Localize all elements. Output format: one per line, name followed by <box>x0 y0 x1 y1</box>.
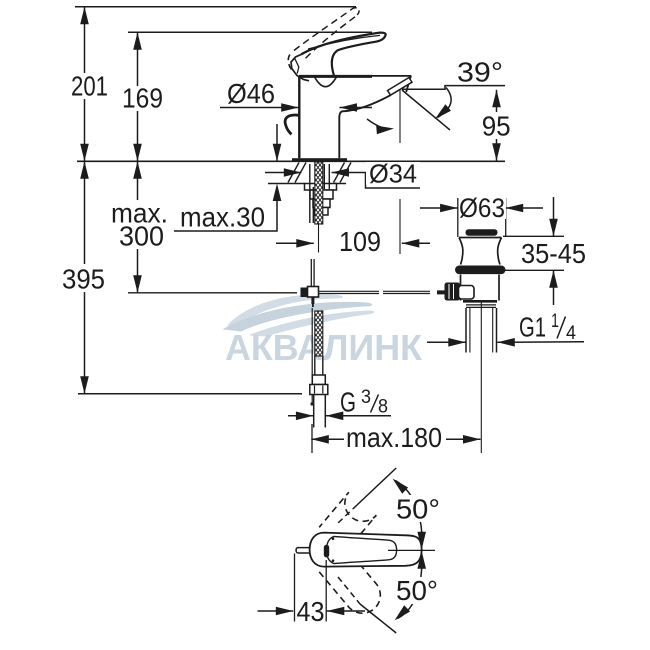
lever top inner line <box>308 35 380 49</box>
arrow right Ø46 <box>281 103 299 112</box>
label 50° upper <box>393 495 442 522</box>
arrowhead lower 50° at axis <box>417 551 426 569</box>
counter underside left <box>268 183 305 185</box>
arrow left 43 <box>327 607 345 616</box>
svg-text:50°: 50° <box>396 575 438 606</box>
drain push cap <box>466 229 498 236</box>
flexible hose crosshatch <box>315 311 323 356</box>
label Ø46 <box>222 80 280 106</box>
arrowhead upper 50° at axis <box>417 532 426 550</box>
43 right extension <box>325 560 327 622</box>
lower 50° diagonal solid <box>360 604 396 633</box>
counter underside right <box>334 183 346 185</box>
stream direction arc <box>367 119 390 129</box>
upper 50° diagonal solid <box>357 468 396 505</box>
drain centerline <box>480 301 482 453</box>
max30 leader/underline <box>174 201 277 231</box>
arrow left 109 <box>402 239 420 248</box>
lever rear inner facet <box>295 59 299 74</box>
svg-text:109: 109 <box>339 226 381 257</box>
upper arc shaft <box>421 531 423 534</box>
G1 1/4 left shaft <box>427 341 466 343</box>
pop-up rod hook <box>285 115 299 134</box>
supply tube A right wall <box>312 187 314 223</box>
43 left shaft <box>258 610 294 612</box>
handle top view inner contour <box>327 536 397 563</box>
arrow down 201 bottom <box>80 144 89 162</box>
drain ring line 1 <box>466 304 496 306</box>
hatch left 1 <box>288 163 299 183</box>
arrow left G3/8 <box>326 412 344 421</box>
hose connector <box>310 375 328 395</box>
Ø63 left extension line <box>457 198 459 237</box>
dimension line x=137.5 (169/max300) <box>137 32 139 293</box>
arrow left Ø63 <box>506 204 524 213</box>
arrow right 43 <box>276 607 294 616</box>
svg-text:G1: G1 <box>519 312 546 343</box>
aerator centerline upper <box>399 90 401 143</box>
knob ridge 2 <box>453 284 455 299</box>
arrowhead lower 50° at diagonal <box>395 605 411 620</box>
faucet body top edge thick <box>299 75 372 78</box>
faucet centerline below shank <box>318 224 320 253</box>
countertop line <box>77 160 505 162</box>
bottom reference line (hose end) <box>78 393 302 395</box>
drain flange right side <box>498 238 502 265</box>
pop-up rod nub left <box>296 548 310 553</box>
aerator centerline lower / 109 extension <box>399 199 401 254</box>
cartridge dome bowl arc <box>315 77 337 87</box>
upper 50° arc <box>396 481 422 533</box>
Ø63 right extension line <box>505 198 507 237</box>
lever handle solid <box>301 33 386 77</box>
109 right shaft <box>402 242 430 244</box>
G3/8 underline <box>326 415 391 417</box>
max180 right shaft <box>446 438 481 440</box>
svg-text:39°: 39° <box>457 57 503 88</box>
arrow left max180 <box>311 435 329 444</box>
rod threaded end <box>437 290 446 294</box>
max30 upper shaft <box>276 124 278 161</box>
drain flange left side <box>459 238 463 265</box>
label 95 <box>477 112 516 139</box>
label Ø34 <box>366 162 420 185</box>
dashed handle rotated down 50° <box>319 549 380 613</box>
arrow right 109 <box>296 239 314 248</box>
aerator slab <box>388 78 413 96</box>
G3/8 left shaft <box>288 415 313 417</box>
arrow down 35-45 <box>549 219 558 237</box>
drain flange top <box>459 237 502 239</box>
tailpipe inner right <box>492 308 494 353</box>
arrow right Ø34 <box>284 168 302 177</box>
109 left shaft <box>276 242 314 244</box>
tailpipe inner left <box>469 308 471 353</box>
arrow right max180 <box>463 435 481 444</box>
arrowhead upper 50° at diagonal <box>393 479 409 494</box>
label 395 <box>57 264 110 292</box>
G3/8 pipe right wall <box>324 395 326 428</box>
label 43 <box>296 600 325 623</box>
hatch right 2 <box>340 163 351 183</box>
Ø63 right shaft <box>506 207 543 209</box>
max180 left shaft <box>311 438 344 440</box>
svg-text:300: 300 <box>119 221 164 252</box>
35-45 top extension <box>503 235 564 237</box>
svg-text:169: 169 <box>122 83 163 114</box>
arrowhead 39deg arc <box>435 104 451 119</box>
arrow up 169 top <box>133 32 142 50</box>
hose lower right wall <box>322 356 324 375</box>
spout underside curve + body right edge <box>339 95 390 158</box>
drain body bottom thick <box>463 300 497 303</box>
handle top view outline <box>310 533 422 567</box>
connector inner tick 2 <box>322 386 324 394</box>
label 169 <box>117 86 167 111</box>
rod segment 2 lower <box>383 293 430 295</box>
label 50° lower <box>393 577 440 604</box>
svg-text:43: 43 <box>297 596 325 627</box>
supply tube B left wall <box>323 164 325 189</box>
arrow down 95 <box>492 143 501 161</box>
35-45 upper shaft <box>553 197 555 236</box>
drain O-ring seal <box>455 266 506 275</box>
faucet spout top edge <box>371 75 411 77</box>
handle axis centerline <box>388 549 435 551</box>
top reference line (handle max height) <box>75 6 356 8</box>
dashed handle rotated up 50° <box>319 492 376 550</box>
35-45 bottom extension <box>505 269 564 271</box>
lever faceted rear <box>291 55 309 81</box>
rod taper <box>312 304 314 307</box>
rod right part lower line <box>319 293 379 295</box>
arrow down 395 bottom <box>80 376 89 394</box>
cross fitting <box>301 288 308 298</box>
svg-text:395: 395 <box>62 264 105 295</box>
tailpipe outer left <box>465 308 467 353</box>
39deg arc <box>438 88 452 118</box>
svg-text:Ø34: Ø34 <box>369 159 417 189</box>
arrow down max30 <box>273 144 282 162</box>
vertical rod above cross right <box>313 259 315 286</box>
svg-text:35-45: 35-45 <box>521 238 586 269</box>
rod right part upper line <box>319 290 379 292</box>
svg-text:АКВАЛИНК: АКВАЛИНК <box>225 327 423 368</box>
drain knurled knob <box>445 283 461 301</box>
svg-text:Ø63: Ø63 <box>459 193 505 223</box>
drain body left <box>460 275 462 301</box>
arrow down max300 bottom <box>133 275 142 293</box>
lower 50° diagonal dashed part <box>338 577 360 604</box>
fraction slash G3/8 <box>371 395 379 413</box>
threaded shank crosshatch <box>315 162 323 224</box>
hose lower left wall <box>314 356 316 375</box>
G3/8 pipe left wall <box>313 395 315 428</box>
knob ridge 1 <box>448 284 450 299</box>
arrow up 35-45 <box>549 270 558 288</box>
svg-text:50°: 50° <box>396 494 440 525</box>
hatch right 1 <box>334 163 345 183</box>
reference line (lever tip height) <box>128 31 372 33</box>
Ø46 leader line <box>220 107 299 109</box>
label 201 <box>66 73 113 99</box>
svg-text:4: 4 <box>566 323 576 344</box>
39deg diagonal line <box>402 90 450 130</box>
lower 50° arc <box>398 568 422 619</box>
arrow left Ø34 <box>332 168 350 177</box>
arrow up max300 top <box>133 161 142 179</box>
dimension line x=84.5 (201/395) <box>84 7 86 394</box>
arrow up 201 top <box>80 7 89 25</box>
max180 left extension tick <box>311 424 313 453</box>
svg-text:95: 95 <box>482 111 511 142</box>
43 left extension <box>294 554 296 622</box>
upper 50° diagonal dashed part <box>338 505 357 523</box>
handle slot mark <box>332 537 335 540</box>
svg-text:1: 1 <box>551 311 559 332</box>
Ø46 inner shaft <box>340 107 373 109</box>
label 300 <box>114 224 168 249</box>
drain body right <box>498 275 500 301</box>
svg-text:max.180: max.180 <box>346 422 442 453</box>
supply tube A left wall <box>309 164 311 223</box>
svg-text:8: 8 <box>378 397 388 418</box>
svg-text:max.30: max.30 <box>180 202 265 233</box>
arrowhead stream arc <box>376 126 394 135</box>
vertical rod above cross left <box>310 259 312 286</box>
arrow right G1 1/4 <box>448 338 466 347</box>
arrow left G1 1/4 <box>497 338 515 347</box>
svg-text:G: G <box>340 387 356 418</box>
drain ring line 2 <box>466 306 496 308</box>
rod below cross thick <box>311 297 314 304</box>
svg-text:Ø46: Ø46 <box>227 78 275 109</box>
95 dimension line <box>496 90 498 161</box>
35-45 lower shaft <box>553 270 555 305</box>
arrow down 169 bottom <box>133 144 142 162</box>
dashed raised lever <box>294 9 352 51</box>
Ø63 left shaft <box>420 207 458 209</box>
43 right shaft <box>327 610 365 612</box>
arrow left Ø46 <box>340 103 358 112</box>
connector inner tick 1 <box>314 386 316 394</box>
faucet body left edge <box>298 77 300 159</box>
watermark wave logo <box>228 295 342 327</box>
mounting washer/nut stack <box>305 184 337 216</box>
label Ø63 <box>459 198 506 219</box>
Ø34 left shaft <box>265 172 301 174</box>
arrow right Ø63 <box>440 204 458 213</box>
fraction slash G1 1/4 <box>557 317 566 339</box>
G1 1/4 underline <box>497 341 584 344</box>
arrow up 95 <box>492 90 501 108</box>
39deg reference line + underline <box>402 86 505 90</box>
svg-text:3: 3 <box>361 387 371 408</box>
supply tube B right wall <box>328 164 330 189</box>
rod segment 2 upper <box>383 290 430 292</box>
dot top <box>332 559 335 562</box>
lower arc shaft <box>421 567 423 570</box>
arrow right G3/8 <box>296 412 314 421</box>
Ø34 leader + underline <box>332 173 421 189</box>
arrow up 395 top <box>80 161 89 179</box>
arrow up max30 <box>273 184 282 202</box>
horizontal pop-up rod left part <box>128 292 297 294</box>
tailpipe outer right <box>496 308 498 353</box>
base foot plate <box>292 158 347 161</box>
long vertical pull rod <box>311 308 313 403</box>
label max. <box>106 200 172 226</box>
spout tip face <box>406 76 411 93</box>
svg-text:201: 201 <box>71 71 108 102</box>
hatch left 2 <box>295 163 306 183</box>
